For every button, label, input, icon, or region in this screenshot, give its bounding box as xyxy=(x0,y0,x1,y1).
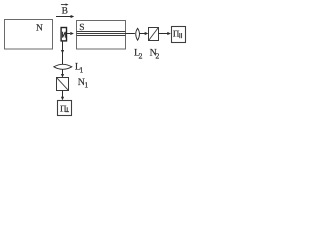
svg-text:2: 2 xyxy=(155,51,159,60)
svg-text:П: П xyxy=(173,29,180,39)
svg-text:N: N xyxy=(36,24,43,34)
svg-text:1: 1 xyxy=(84,81,88,90)
svg-text:1: 1 xyxy=(79,65,83,74)
svg-text:2: 2 xyxy=(139,51,143,60)
svg-text:B: B xyxy=(62,7,68,17)
